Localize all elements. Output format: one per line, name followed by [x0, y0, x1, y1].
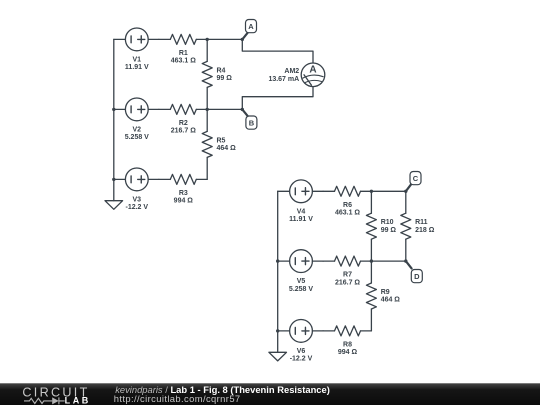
- svg-text:994 Ω: 994 Ω: [174, 198, 194, 205]
- junction node D: [404, 259, 407, 262]
- svg-text:R1: R1: [179, 50, 188, 57]
- svg-text:11.91 V: 11.91 V: [289, 216, 313, 223]
- svg-text:-12.2 V: -12.2 V: [126, 204, 149, 211]
- wire R1 junction to node A: [207, 38, 242, 40]
- resistor R7: [323, 256, 371, 286]
- svg-text:R3: R3: [179, 190, 188, 197]
- svg-text:AM2: AM2: [284, 68, 299, 75]
- wire R6 junction to node C: [371, 190, 405, 192]
- junction R6-R10: [370, 190, 373, 193]
- svg-text:464 Ω: 464 Ω: [217, 145, 237, 152]
- junction bus-V6: [276, 329, 279, 332]
- junction bus-V5: [276, 259, 279, 262]
- ground GND1: [105, 201, 123, 210]
- svg-text:V6: V6: [297, 348, 306, 355]
- svg-text:99 Ω: 99 Ω: [217, 75, 233, 82]
- wire left bus (V1-V2-V3 negative rail): [113, 39, 115, 200]
- svg-text:13.67 mA: 13.67 mA: [268, 76, 299, 83]
- svg-text:http://circuitlab.com/cqrnr57: http://circuitlab.com/cqrnr57: [114, 393, 241, 404]
- svg-text:V1: V1: [133, 56, 142, 63]
- footer bar: [0, 383, 540, 405]
- svg-text:V5: V5: [297, 278, 306, 285]
- wire R7 junction to node D: [371, 260, 405, 262]
- svg-text:V3: V3: [133, 196, 142, 203]
- junction R2-R4-R5: [206, 108, 209, 111]
- resistor R8: [323, 326, 371, 356]
- svg-text:B: B: [249, 118, 255, 127]
- svg-text:R4: R4: [217, 67, 226, 74]
- svg-text:D: D: [414, 272, 420, 281]
- svg-text:R11: R11: [415, 219, 428, 226]
- voltage source V6: [278, 320, 323, 363]
- wire R2 junction to node B: [207, 108, 242, 110]
- node A: [242, 20, 256, 40]
- svg-text:463.1 Ω: 463.1 Ω: [335, 210, 360, 217]
- junction R7-R9-R10: [370, 259, 373, 262]
- resistor R3: [159, 174, 207, 204]
- node C: [406, 172, 421, 192]
- svg-text:994 Ω: 994 Ω: [338, 349, 358, 356]
- svg-text:V4: V4: [297, 208, 306, 215]
- resistor R5: [202, 109, 236, 179]
- junction bus-V3: [112, 178, 115, 181]
- voltage source V1: [114, 28, 159, 71]
- svg-text:216.7 Ω: 216.7 Ω: [335, 279, 360, 286]
- svg-text:A: A: [248, 22, 254, 31]
- svg-text:R6: R6: [343, 202, 352, 209]
- wire node A to ammeter top: [242, 39, 313, 63]
- svg-text:11.91 V: 11.91 V: [125, 64, 149, 71]
- junction node B: [241, 108, 244, 111]
- voltage source V4: [278, 180, 323, 223]
- svg-text:R8: R8: [343, 342, 352, 349]
- voltage source V2: [114, 98, 159, 141]
- svg-text:464 Ω: 464 Ω: [381, 297, 401, 304]
- resistor R9: [366, 261, 400, 331]
- svg-text:R2: R2: [179, 120, 188, 127]
- resistor R11: [401, 191, 435, 261]
- resistor R1: [159, 34, 207, 64]
- node B: [242, 109, 257, 129]
- ammeter AM2: [268, 63, 324, 87]
- svg-text:-12.2 V: -12.2 V: [290, 356, 313, 363]
- junction node C: [404, 190, 407, 193]
- svg-text:R7: R7: [343, 272, 352, 279]
- junction node A: [241, 38, 244, 41]
- junction R1-R4: [206, 38, 209, 41]
- resistor R2: [159, 104, 207, 134]
- junction bus-V2: [112, 108, 115, 111]
- svg-text:5.258 V: 5.258 V: [289, 286, 313, 293]
- svg-text:99 Ω: 99 Ω: [381, 227, 397, 234]
- svg-text:5.258 V: 5.258 V: [125, 134, 149, 141]
- resistor R4: [202, 39, 232, 109]
- voltage source V3: [114, 168, 159, 211]
- ground GND2: [269, 352, 287, 361]
- svg-text:A: A: [309, 65, 316, 76]
- wire ammeter bottom to node B: [242, 87, 313, 110]
- svg-text:R5: R5: [217, 137, 226, 144]
- voltage source V5: [278, 250, 323, 293]
- resistor R6: [323, 186, 371, 216]
- svg-text:R10: R10: [381, 219, 394, 226]
- svg-text:218 Ω: 218 Ω: [415, 227, 435, 234]
- wire right bus (V4-V5-V6 negative rail): [277, 191, 279, 352]
- svg-text:R9: R9: [381, 289, 390, 296]
- svg-text:216.7 Ω: 216.7 Ω: [171, 128, 196, 135]
- svg-text:LAB: LAB: [65, 396, 91, 405]
- resistor R10: [366, 191, 396, 261]
- svg-text:V2: V2: [133, 126, 142, 133]
- svg-text:C: C: [413, 174, 419, 183]
- svg-text:463.1 Ω: 463.1 Ω: [171, 58, 196, 65]
- node D: [406, 261, 423, 283]
- CircuitLab logo: [22, 385, 90, 405]
